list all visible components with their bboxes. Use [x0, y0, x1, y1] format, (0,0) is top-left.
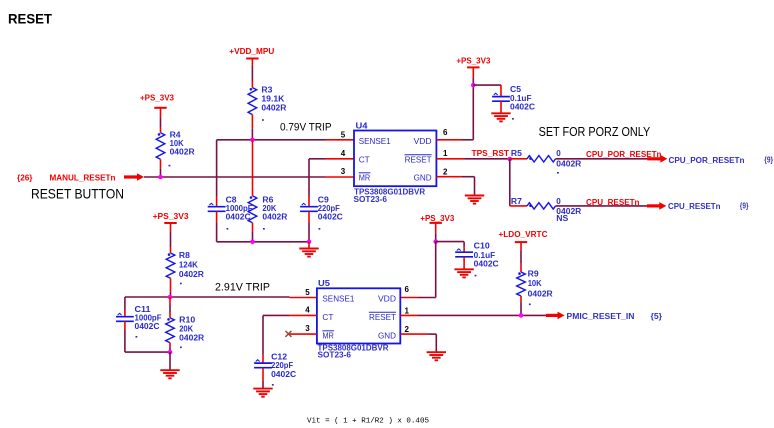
- wire to ground 1: [308, 242, 310, 249]
- capacitor C10: [455, 249, 473, 257]
- arrow MANUL_RESETn in: [124, 173, 144, 181]
- ground under U5: [427, 352, 446, 360]
- wire VDD net U5: [418, 242, 436, 298]
- label C12 value: [271, 353, 296, 386]
- power symbol +PS_3V3 R4: [140, 93, 175, 107]
- svg-text:4: 4: [341, 149, 346, 158]
- svg-text:RESET: RESET: [369, 312, 396, 322]
- wire +PS_3V3 to R8: [170, 223, 172, 253]
- node junction TPS_RST: [508, 157, 513, 162]
- page ref {9} bottom: [740, 202, 749, 211]
- wire CT net U5: [263, 315, 290, 362]
- node junction C10 branch: [433, 239, 438, 244]
- svg-text:C10: C10: [474, 241, 491, 250]
- pin stub SENSE1 U4: [325, 139, 354, 141]
- wire R4 to MANUL node: [160, 159, 162, 177]
- svg-text:GND: GND: [414, 173, 432, 183]
- port CPU_POR_RESETn: [669, 156, 745, 165]
- pin label SENSE1 U5: [322, 294, 354, 304]
- svg-text:+VDD_MPU: +VDD_MPU: [229, 47, 274, 56]
- wire C9 to gnd rail: [308, 211, 310, 242]
- ground under C5: [491, 113, 510, 121]
- wire +PS_3V3 to R4: [160, 108, 162, 133]
- svg-text:220pF: 220pF: [271, 361, 293, 370]
- svg-text:TPS_RST: TPS_RST: [472, 149, 510, 158]
- svg-text:R3: R3: [261, 86, 273, 95]
- title RESET: [8, 11, 52, 27]
- wire power to junction: [435, 223, 437, 242]
- pin label CT U5: [322, 312, 333, 322]
- pin stub CT U5: [290, 314, 317, 316]
- power symbol +PS_3V3 R8: [153, 212, 190, 223]
- svg-text:0402R: 0402R: [179, 270, 204, 279]
- svg-text:20K: 20K: [179, 325, 193, 334]
- resistor R4: [156, 133, 165, 160]
- svg-text:0402R: 0402R: [262, 213, 287, 222]
- pin stub GND U5: [400, 333, 428, 335]
- wire SENSE1 net U4: [217, 139, 325, 141]
- svg-text:0402C: 0402C: [135, 322, 160, 331]
- label R5 value: [556, 149, 581, 174]
- svg-text:{5}: {5}: [651, 312, 663, 321]
- pin stub SENSE1 U5: [290, 297, 317, 299]
- label U5 package: [318, 351, 352, 360]
- resistor R3: [248, 88, 257, 115]
- label C11 value: [135, 305, 162, 338]
- svg-text:2: 2: [443, 168, 448, 177]
- pin stub VDD U5: [400, 297, 418, 299]
- IC U4 box: [354, 131, 436, 187]
- svg-text:NS: NS: [556, 214, 569, 223]
- pin number 3 U5: [305, 324, 310, 333]
- wire GND U4: [462, 177, 475, 196]
- svg-text:5: 5: [305, 288, 310, 297]
- svg-text:{9}: {9}: [764, 156, 773, 165]
- svg-text:C5: C5: [510, 85, 522, 94]
- resistor R10: [166, 318, 175, 343]
- node junction R6 gnd: [250, 240, 255, 245]
- pin label RESET U5: [369, 312, 396, 322]
- label U5 part number: [318, 344, 389, 353]
- label C5 value: [510, 85, 535, 120]
- svg-text:MR: MR: [359, 173, 371, 183]
- pin number 6 U5: [405, 285, 410, 294]
- svg-text:0.1uF: 0.1uF: [474, 251, 496, 260]
- svg-text:19.1K: 19.1K: [261, 95, 284, 104]
- svg-text:Vit = ( 1 + R1/R2 ) x 0.405: Vit = ( 1 + R1/R2 ) x 0.405: [307, 418, 429, 426]
- svg-text:124K: 124K: [179, 260, 198, 269]
- wire node to R10: [169, 297, 171, 318]
- svg-text:0.79V TRIP: 0.79V TRIP: [280, 122, 332, 134]
- resistor R9: [517, 272, 526, 296]
- svg-text:R9: R9: [528, 269, 540, 278]
- svg-text:2.91V TRIP: 2.91V TRIP: [215, 282, 270, 294]
- wire C12 to ground: [262, 368, 264, 389]
- pin stub RESET U5: [400, 314, 418, 316]
- wire C11 top: [124, 297, 126, 316]
- pin label VDD U5: [378, 294, 396, 304]
- svg-text:6: 6: [443, 128, 448, 137]
- wire PMIC_RESET_IN: [418, 314, 547, 316]
- net label MANUL_RESETn: [50, 173, 116, 182]
- label C9 value: [318, 196, 343, 230]
- label RESET BUTTON: [31, 186, 124, 202]
- label R3 value: [261, 86, 286, 121]
- pin label RESET U4: [405, 155, 432, 165]
- label R5 refdes: [511, 149, 523, 158]
- svg-text:R10: R10: [179, 316, 196, 325]
- pin number 5 U5: [305, 288, 310, 297]
- label R8 value: [179, 251, 204, 284]
- node junction R3-R6-SENSE1: [250, 138, 255, 143]
- page ref {26}: [17, 173, 33, 182]
- svg-text:0402C: 0402C: [271, 370, 296, 379]
- wire R7 to arrow: [556, 205, 647, 207]
- pin stub RESET U4: [436, 158, 464, 160]
- svg-text:0402R: 0402R: [170, 148, 195, 157]
- label R10 value: [179, 316, 204, 349]
- wire C10 to ground: [463, 257, 465, 270]
- pin number 5 U4: [341, 131, 346, 140]
- svg-text:+PS_3V3: +PS_3V3: [153, 212, 190, 221]
- wire GND U5: [428, 334, 436, 352]
- svg-text:3: 3: [305, 324, 310, 333]
- svg-text:CT: CT: [322, 312, 333, 322]
- IC U5 box: [317, 288, 400, 343]
- ground under C9: [299, 249, 318, 257]
- resistor R6: [248, 196, 257, 223]
- wire R6 to gnd rail: [252, 223, 254, 242]
- node junction R9 PMIC: [519, 313, 524, 318]
- svg-text:SOT23-6: SOT23-6: [318, 351, 352, 360]
- capacitor C12: [254, 360, 272, 368]
- net label TPS_RST: [472, 149, 510, 158]
- svg-text:1: 1: [443, 149, 448, 158]
- wire VDD to power: [462, 67, 473, 139]
- pin number 1 U4: [443, 149, 448, 158]
- wire C5 branch: [473, 85, 501, 96]
- svg-text:RESET: RESET: [405, 155, 432, 165]
- pin number 1 U5: [405, 307, 410, 316]
- capacitor C8: [208, 203, 226, 211]
- arrow CPU_RESETn: [647, 202, 666, 210]
- svg-text:R8: R8: [179, 251, 191, 260]
- pin number 4 U4: [341, 149, 346, 158]
- wire CT net U4: [309, 159, 325, 207]
- svg-text:VDD: VDD: [378, 294, 396, 304]
- wire C10 branch: [436, 242, 464, 252]
- node junction R4-MANUL: [158, 175, 163, 180]
- wire TPS_RST: [464, 158, 509, 160]
- page ref {9} top: [764, 156, 773, 165]
- label R9 value: [528, 269, 553, 305]
- svg-text:+PS_3V3: +PS_3V3: [420, 214, 455, 223]
- wire R10 to gnd node: [169, 343, 171, 352]
- pin label MR U4: [359, 173, 371, 183]
- svg-text:0402R: 0402R: [528, 289, 553, 298]
- svg-text:PMIC_RESET_IN: PMIC_RESET_IN: [567, 312, 635, 321]
- svg-text:3: 3: [341, 167, 346, 176]
- svg-text:+PS_3V3: +PS_3V3: [456, 57, 491, 66]
- node junction C9 gnd: [307, 240, 312, 245]
- port PMIC_RESET_IN: [567, 312, 635, 321]
- pin label GND U5: [378, 331, 396, 341]
- resistor R7: [527, 203, 556, 209]
- label 2.91V TRIP: [215, 282, 270, 294]
- label U4 part number: [354, 187, 425, 196]
- pin label CT: [359, 155, 370, 165]
- svg-text:4: 4: [305, 306, 310, 315]
- svg-text:SOT23-6: SOT23-6: [354, 195, 388, 204]
- node junction C5 branch: [471, 83, 476, 88]
- svg-text:10K: 10K: [528, 279, 542, 288]
- wire MANUL_RESETn: [144, 176, 325, 178]
- wire C8 branch: [216, 140, 218, 207]
- label U4 refdes: [356, 121, 369, 130]
- pin number 3 U4: [341, 167, 346, 176]
- svg-text:RESET BUTTON: RESET BUTTON: [31, 186, 124, 202]
- svg-text:0: 0: [556, 149, 561, 158]
- power symbol +PS_3V3 U5: [420, 214, 455, 223]
- pin label MR U5: [322, 331, 334, 341]
- ground under R10: [160, 370, 179, 378]
- label C8 value: [226, 196, 253, 230]
- arrow PMIC_RESET_IN: [546, 312, 565, 320]
- svg-text:{9}: {9}: [740, 202, 749, 211]
- capacitor C9: [300, 203, 318, 211]
- label Vit formula: [307, 418, 429, 426]
- power symbol +VDD_MPU: [229, 47, 274, 58]
- port CPU_RESETn: [668, 202, 721, 211]
- ground under C12: [253, 389, 272, 397]
- wire C5 to ground: [500, 101, 502, 113]
- pin label VDD: [414, 136, 432, 146]
- svg-text:U4: U4: [356, 121, 369, 130]
- label R7 refdes: [511, 197, 523, 206]
- wire C11 bottom: [125, 321, 170, 352]
- wire SENSE1 net U5: [125, 296, 290, 298]
- svg-text:SET FOR PORZ ONLY: SET FOR PORZ ONLY: [539, 124, 651, 139]
- ground under U4: [465, 196, 484, 204]
- resistor R8: [166, 253, 175, 278]
- svg-text:GND: GND: [378, 331, 396, 341]
- wire R9 to PMIC net: [520, 296, 522, 315]
- wire node to R6: [252, 140, 254, 196]
- wire R8 to SENSE node: [170, 278, 172, 297]
- svg-text:0402R: 0402R: [556, 160, 581, 169]
- svg-text:CPU_POR_RESETn: CPU_POR_RESETn: [669, 156, 745, 165]
- svg-text:6: 6: [405, 285, 410, 294]
- wire R5 lead: [510, 158, 527, 160]
- pin stub GND U4: [436, 176, 462, 178]
- svg-text:SENSE1: SENSE1: [359, 136, 391, 146]
- pin number 2 U5: [405, 325, 410, 334]
- svg-text:VDD: VDD: [414, 136, 432, 146]
- svg-text:R5: R5: [511, 149, 523, 158]
- svg-text:0402C: 0402C: [510, 102, 535, 111]
- svg-text:2: 2: [405, 325, 410, 334]
- pin stub VDD U4: [436, 139, 462, 141]
- capacitor C11: [116, 313, 134, 321]
- label U5 refdes: [318, 279, 331, 288]
- ground under C10: [454, 269, 473, 277]
- svg-text:SENSE1: SENSE1: [322, 294, 354, 304]
- node junction R8 C11: [168, 295, 173, 300]
- label 0.79V TRIP: [280, 122, 332, 134]
- svg-text:5: 5: [341, 131, 346, 140]
- capacitor C5: [492, 93, 510, 101]
- svg-text:0402C: 0402C: [474, 260, 499, 269]
- label R7 value: [556, 197, 581, 223]
- wire gnd drop: [169, 352, 171, 370]
- net label CPU_RESETn red: [586, 198, 640, 207]
- resistor R5: [527, 156, 556, 162]
- pin number 4 U5: [305, 306, 310, 315]
- svg-text:0402C: 0402C: [318, 213, 343, 222]
- svg-text:0: 0: [556, 197, 561, 206]
- svg-text:U5: U5: [318, 279, 331, 288]
- svg-text:{26}: {26}: [17, 173, 33, 182]
- pin number 6 U4: [443, 128, 448, 137]
- pin stub MR U5: [290, 333, 317, 335]
- svg-text:MANUL_RESETn: MANUL_RESETn: [50, 173, 116, 182]
- no-connect X on MR U5: [285, 331, 291, 337]
- wire +LDO_VRTC to R9: [520, 242, 522, 272]
- pin label GND U4: [414, 173, 432, 183]
- svg-text:0402R: 0402R: [179, 333, 204, 342]
- label C10 value: [474, 241, 499, 276]
- wire +VDD_MPU to R3: [251, 59, 253, 88]
- svg-text:R7: R7: [511, 197, 523, 206]
- power symbol +PS_3V3 U4: [456, 57, 491, 68]
- svg-text:0402R: 0402R: [261, 104, 286, 113]
- svg-text:RESET: RESET: [8, 11, 52, 27]
- svg-text:CPU_RESETn: CPU_RESETn: [586, 198, 640, 207]
- wire C8 to gnd rail: [216, 211, 218, 242]
- label R4 value: [169, 131, 195, 167]
- svg-text:+LDO_VRTC: +LDO_VRTC: [499, 230, 548, 239]
- svg-text:CPU_RESETn: CPU_RESETn: [668, 202, 721, 211]
- power symbol +LDO_VRTC: [499, 230, 548, 242]
- wire TPS_RST to R7: [509, 159, 511, 206]
- arrow CPU_POR_RESETn: [647, 155, 667, 163]
- wire R3 to node: [251, 115, 253, 140]
- svg-text:+PS_3V3: +PS_3V3: [140, 93, 175, 102]
- label U4 package: [354, 195, 388, 204]
- pin stub MR U4: [325, 176, 354, 178]
- wire R7 lead: [510, 205, 527, 207]
- node junction R10 gnd: [168, 350, 173, 355]
- page ref {5}: [651, 312, 663, 321]
- pin stub CT U4: [325, 158, 354, 160]
- net label CPU_POR_RESETn red: [586, 150, 662, 159]
- wire R5 to arrow: [556, 158, 648, 160]
- svg-text:0402C: 0402C: [226, 213, 251, 222]
- pin number 2 U4: [443, 168, 448, 177]
- svg-text:1: 1: [405, 307, 410, 316]
- svg-text:CT: CT: [359, 155, 370, 165]
- label SET FOR PORZ ONLY: [539, 124, 651, 139]
- svg-text:MR: MR: [322, 331, 334, 341]
- label R6 value: [262, 196, 287, 230]
- pin label SENSE1: [359, 136, 391, 146]
- wire gnd rail: [217, 241, 309, 243]
